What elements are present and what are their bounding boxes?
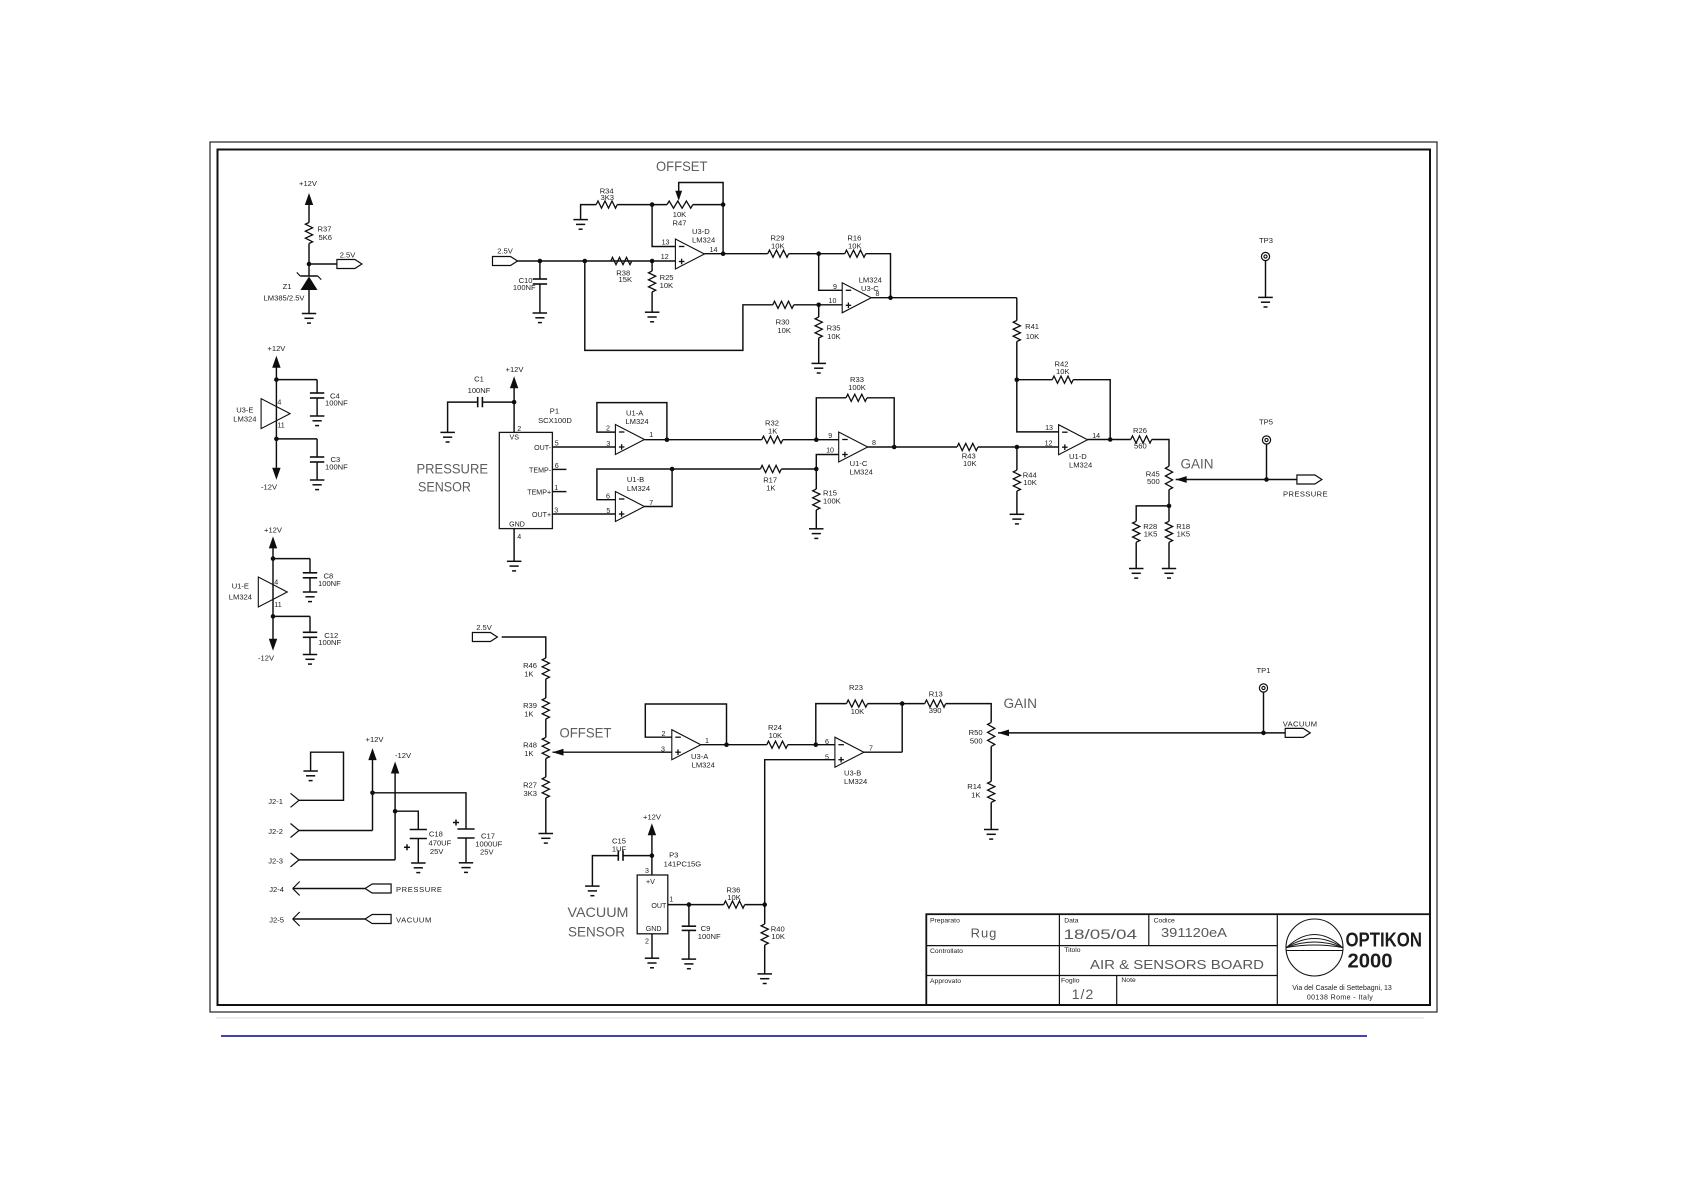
wire C17 branch [373,793,467,829]
node R47/feedback [721,202,726,207]
svg-text:10K: 10K [727,893,741,902]
svg-text:2: 2 [606,425,610,433]
wire C15 to ground [592,856,618,887]
node U1-B feedback/R17 [670,467,675,472]
wire to C4 [276,379,317,381]
resistor R35 [818,305,820,317]
svg-text:7: 7 [869,745,873,753]
wire -12V vertical J2-3 [394,773,396,860]
wire C4 to ground [316,398,318,416]
flag PRESSURE (output) [1297,475,1322,484]
svg-text:P1: P1 [550,407,559,416]
resistor R18 [1168,506,1170,521]
svg-text:1K: 1K [766,483,775,492]
ground Z1 [302,313,316,315]
svg-text:C1: C1 [474,374,484,383]
svg-text:+12V: +12V [643,813,662,822]
svg-text:-12V: -12V [395,751,412,760]
wire J2-2 to +12V [299,830,373,832]
svg-text:10K: 10K [963,459,977,468]
wire pin 13 (U1-D) [1017,380,1059,432]
wire to R17 [672,468,760,470]
svg-text:LM324: LM324 [844,777,867,786]
svg-text:391120eA: 391120eA [1161,926,1228,940]
op-amp U3-D [675,239,704,269]
R48 wiper wire [553,751,672,753]
wire +12V rail U3-E [275,367,277,468]
wire R39-R48 [545,719,547,738]
node U1-C output [892,445,897,450]
potentiometer R45 [1165,466,1172,490]
svg-text:LM324: LM324 [1069,461,1092,470]
wire R46-R39 [545,679,547,698]
capacitor C8 [303,572,317,574]
R50 wiper wire [998,732,1285,734]
ground C3 [310,479,325,481]
ground C17 [459,862,473,864]
svg-text:10K: 10K [1023,478,1037,487]
svg-text:TEMP+: TEMP+ [527,489,551,497]
wire +12V rail U1-E [272,548,274,640]
svg-text:6: 6 [606,492,610,500]
potentiometer R48 [542,738,549,759]
wire R34 to R47 [617,204,667,206]
node R25/pin12 [650,259,655,264]
svg-text:10K: 10K [1056,367,1070,376]
wire to R28 [1136,506,1169,521]
ground R15 [809,528,824,530]
pin 1 TEMP+ stub [552,491,566,493]
svg-text:13: 13 [1045,424,1053,432]
wire R48-R27 [545,759,547,778]
wire R28 to ground [1135,542,1137,568]
wire R34 to ground [581,205,597,220]
svg-text:10K: 10K [771,932,785,941]
wire C3 to ground [316,462,318,480]
wire R27 to ground [545,798,547,834]
op-amp U1-C [839,432,868,462]
wire U1-A out to R32 [644,439,761,441]
R45 wiper wire [1176,479,1297,481]
svg-text:+V: +V [646,878,655,886]
op-amp U3-E (power pins) [261,399,290,429]
wire R18 to ground [1168,542,1170,568]
ground C10 [533,312,548,314]
svg-text:TEMP-: TEMP- [529,466,552,474]
wire U3-B output [864,751,902,753]
svg-text:10: 10 [826,447,834,455]
svg-text:5: 5 [555,439,559,447]
svg-text:PRESSURE: PRESSURE [1283,489,1328,498]
blue underline [221,1035,1367,1037]
ground P1 [507,560,522,562]
wire R41 to R42 node [1016,342,1018,380]
ground R44 [1010,513,1025,515]
svg-text:LM385/2.5V: LM385/2.5V [264,294,306,303]
svg-text:R23: R23 [849,683,863,692]
power -12V (U1-E) [269,639,277,651]
wire R26 to R45 [1152,440,1169,467]
ground C12 [303,654,317,656]
svg-text:R41: R41 [1025,322,1039,331]
svg-text:9: 9 [833,283,837,291]
svg-text:1/2: 1/2 [1072,986,1094,1002]
svg-text:1K: 1K [768,426,777,435]
svg-text:1K: 1K [524,710,533,719]
U3-A feedback loop [645,704,726,745]
svg-text:GAIN: GAIN [1004,696,1038,711]
svg-text:J2-5: J2-5 [269,916,284,925]
pin 6 TEMP- stub [552,468,566,470]
wire to C3 [276,438,317,440]
wire R15 to ground [815,510,817,529]
wire to C12 [273,615,310,617]
outer border frame [210,142,1437,1012]
svg-text:25V: 25V [480,847,494,856]
svg-text:TP5: TP5 [1259,418,1273,427]
wire J2-5 to VACUUM [293,918,365,920]
svg-text:12: 12 [1045,439,1053,447]
svg-text:PRESSURE: PRESSURE [396,885,443,894]
node R29/R16/pin9 [816,251,821,256]
resistor R25 [651,261,653,271]
wire J2-3 to -12V [299,859,395,861]
svg-text:LM324: LM324 [233,415,256,424]
svg-text:VACUUM: VACUUM [396,916,432,925]
wire C17 to ground [465,838,467,863]
svg-text:2000: 2000 [1348,951,1393,973]
svg-text:OUT+: OUT+ [532,511,551,519]
wire R24 to pin 6 [788,744,835,746]
potentiometer R50 [988,722,995,746]
svg-text:Via del Casale di Settebagni,: Via del Casale di Settebagni, 13 [1292,985,1392,992]
svg-text:1K: 1K [971,791,980,800]
svg-text:100NF: 100NF [318,638,341,647]
svg-text:J2-1: J2-1 [268,797,283,806]
wire 2.5V to pin 12 [517,260,675,262]
resistor R17 [760,465,781,472]
svg-text:2.5V: 2.5V [340,251,357,260]
svg-text:LM324: LM324 [625,417,648,426]
wire R37 to node [308,244,310,277]
logo OPTIKON 2000 [1286,919,1343,976]
wire node to 2.5V flag [309,263,337,265]
svg-text:OUT-: OUT- [534,444,552,452]
svg-text:2: 2 [661,730,665,738]
ground TP3 [1258,296,1273,298]
svg-text:100NF: 100NF [698,932,721,941]
svg-text:15K: 15K [619,275,633,284]
resistor R28 [1133,521,1140,542]
svg-text:TP1: TP1 [1257,666,1271,675]
resistor R38 [611,257,632,264]
ground R34 [573,219,588,221]
svg-text:10: 10 [829,297,837,305]
wire R29 to node [789,253,845,255]
wire feedback to output [901,704,903,753]
svg-text:00138 Rome - Italy: 00138 Rome - Italy [1307,995,1373,1002]
capacitor C18 470UF [410,829,427,831]
svg-text:Data: Data [1064,918,1079,925]
U1-B feedback loop [597,469,672,507]
wire C10 to ground [539,284,541,313]
node TP5 [1264,477,1269,482]
wire C12 to ground [309,637,311,654]
svg-text:10K: 10K [827,332,841,341]
resistor R36 [724,901,745,908]
svg-text:LM324: LM324 [850,468,873,477]
svg-text:J2-2: J2-2 [268,827,283,836]
node U1-E bottom [271,614,276,619]
svg-text:C18: C18 [429,830,443,839]
pressure sensor P1 box [499,432,552,528]
svg-text:VACUUM: VACUUM [568,904,629,920]
ground R18 [1162,568,1176,570]
svg-text:LM324: LM324 [627,484,650,493]
svg-text:+12V: +12V [366,735,385,744]
capacitor C17 1000UF [457,828,474,830]
svg-text:VS: VS [510,434,520,442]
pin 13 wire [652,205,675,247]
node TP1 [1261,731,1266,736]
node long feedback tap [583,259,588,264]
svg-text:1: 1 [705,737,709,745]
svg-text:Codice: Codice [1154,918,1175,925]
op-amp U1-E (power pins) [258,577,287,607]
resistor R24 [767,741,788,748]
ground C8 [303,591,317,593]
svg-text:1K: 1K [524,749,533,758]
svg-text:AIR & SENSORS BOARD: AIR & SENSORS BOARD [1090,958,1264,972]
capacitor C4 [310,392,324,394]
svg-text:2.5V: 2.5V [476,623,493,632]
resistor R23 [847,700,868,707]
svg-text:GND: GND [509,520,525,528]
op-amp U1-D [1059,425,1088,455]
node R44 [1015,445,1020,450]
svg-text:18/05/04: 18/05/04 [1064,927,1138,942]
wire +12V to P1 [513,388,515,433]
svg-text:2: 2 [517,425,521,433]
svg-text:J2-3: J2-3 [268,856,283,865]
capacitor C1 [483,401,514,403]
svg-text:6: 6 [825,738,829,746]
svg-text:1K5: 1K5 [1144,530,1158,539]
flag PRESSURE (J2-4) [365,884,391,893]
svg-text:100NF: 100NF [468,386,491,395]
svg-text:SENSOR: SENSOR [418,479,471,495]
svg-text:1: 1 [554,484,558,492]
resistor R44 [1016,447,1018,470]
svg-text:SENSOR: SENSOR [568,924,625,940]
svg-text:100NF: 100NF [318,579,341,588]
node U1-A output [665,437,670,442]
svg-text:390: 390 [929,706,942,715]
wire U1-D out to R26 [1088,439,1131,441]
op-amp U3-A [672,730,701,760]
svg-text:141PC15G: 141PC15G [664,860,702,869]
svg-text:-12V: -12V [258,654,275,663]
ground R25 [645,311,660,313]
svg-text:J2-4: J2-4 [269,885,284,894]
resistor R34 [596,201,617,208]
U1-A feedback loop [597,403,667,440]
svg-text:U3-E: U3-E [236,406,253,415]
svg-text:GND: GND [646,925,662,933]
resistor R41 [1016,298,1018,321]
pin 5 wire (U3-B) [765,760,835,905]
capacitor C15 [623,855,652,857]
P3 OUT pin wire [668,904,724,906]
wire R16 to output node [866,254,891,298]
wire R40 to ground [764,945,766,974]
svg-text:3: 3 [661,746,665,754]
resistor R33 [846,394,867,401]
svg-text:5K6: 5K6 [319,233,333,242]
svg-text:3K3: 3K3 [523,789,537,798]
svg-text:3: 3 [645,867,649,875]
svg-text:4: 4 [517,533,521,541]
ground C1 [440,431,455,433]
node R35 [816,303,821,308]
svg-text:VACUUM: VACUUM [1283,719,1318,728]
svg-text:3: 3 [554,506,558,514]
resistor R43 [957,443,978,450]
svg-text:OFFSET: OFFSET [560,725,612,741]
wire R23 to node [868,703,925,705]
wire pin 10 (U1-C) [816,455,838,470]
svg-text:Controllato: Controllato [930,948,963,955]
svg-text:TP3: TP3 [1259,236,1273,245]
svg-text:11: 11 [277,421,284,429]
svg-text:-12V: -12V [261,483,278,492]
op-amp U3-B [835,737,864,767]
svg-text:3K3: 3K3 [601,193,615,202]
ground C15 [585,885,600,887]
wire R36 to node [745,904,765,906]
svg-text:Note: Note [1121,977,1136,984]
svg-text:13: 13 [662,239,670,247]
svg-text:560: 560 [1134,442,1147,451]
zener Z1 LM385/2.5V [300,275,318,277]
flag VACUUM (J2-5) [365,915,391,924]
svg-text:10K: 10K [771,241,785,250]
svg-text:+12V: +12V [299,179,318,188]
svg-text:6: 6 [555,462,559,470]
R33 to output [867,398,894,447]
svg-text:SCX100D: SCX100D [538,416,572,425]
ground hook J2-1 [299,752,344,800]
node R37/Z1/2.5V [307,262,312,267]
svg-text:10K: 10K [851,707,865,716]
ground R40 [758,973,773,975]
svg-text:1K: 1K [524,670,533,679]
resistor R39 [542,698,549,719]
wire R45 bottom to divider [1168,490,1170,506]
wire U3-A out to R24 [701,744,767,746]
ground P3 [645,957,659,959]
svg-text:R26: R26 [1133,426,1147,435]
node R36/R40 [762,902,767,907]
wire pin 9 [819,254,843,291]
svg-text:OUT: OUT [651,902,667,910]
wire U3-D output row [704,253,767,255]
node R23/R13 [900,701,905,706]
wire C18 to ground [417,839,419,864]
wire R35 to ground [818,338,820,363]
svg-text:U1-B: U1-B [627,475,644,484]
ground C9 [682,958,697,960]
svg-text:3: 3 [606,440,610,448]
svg-text:Foglio: Foglio [1061,978,1080,985]
node R32/R33 [814,437,819,442]
resistor R30 [773,301,794,308]
node U3-A output [724,742,729,747]
svg-text:2.5V: 2.5V [497,247,514,256]
svg-text:4: 4 [277,399,281,407]
shadow line below frame [216,1017,1424,1019]
svg-text:12: 12 [661,253,669,261]
wire R25 to ground [651,292,653,312]
svg-text:PRESSURE: PRESSURE [417,461,489,477]
wire R14 to ground [990,802,992,829]
wire J2-4 to PRESSURE [293,888,365,890]
R23 feedback loop [816,704,847,745]
resistor R40 [764,905,766,924]
wire C18 branch [395,811,418,829]
svg-text:+12V: +12V [264,525,283,534]
svg-text:500: 500 [1147,477,1160,486]
wire R42 to output [1073,380,1110,440]
svg-text:Preparato: Preparato [930,918,960,925]
node R23 feedback [814,742,819,747]
node C9 [687,902,692,907]
svg-text:14: 14 [710,246,718,254]
node C1 [512,400,517,405]
node U3-C output [888,295,893,300]
node U3-D output [721,251,726,256]
wire C8 to ground [309,578,311,592]
svg-text:9: 9 [828,432,832,440]
svg-text:25V: 25V [430,847,444,856]
wire C9 to ground [688,930,690,959]
svg-text:LM324: LM324 [229,592,252,601]
capacitor C10 [539,261,541,279]
svg-text:GAIN: GAIN [1181,457,1214,472]
ground R27 [539,833,554,835]
svg-text:Rug: Rug [971,926,998,941]
svg-text:8: 8 [872,439,876,447]
resistor R14 [988,781,995,802]
vacuum sensor P3 box [637,875,668,934]
capacitor C9 [688,905,690,927]
svg-text:10K: 10K [660,281,674,290]
svg-text:10K: 10K [848,241,862,250]
wire U1-C out row [868,446,957,448]
svg-text:+12V: +12V [267,344,286,353]
svg-text:Approvato: Approvato [930,978,961,985]
ground R14 [984,829,999,831]
inner border frame [218,150,1431,1006]
pin 3 OUT+ wire [552,513,615,515]
ground R35 [812,362,827,364]
svg-text:Z1: Z1 [283,282,292,291]
wire R17 to node [781,468,816,470]
wire long tap to R30 [585,261,773,350]
svg-text:+12V: +12V [506,365,525,374]
op-amp U1-A [615,425,644,455]
op-amp U3-C [842,283,871,313]
